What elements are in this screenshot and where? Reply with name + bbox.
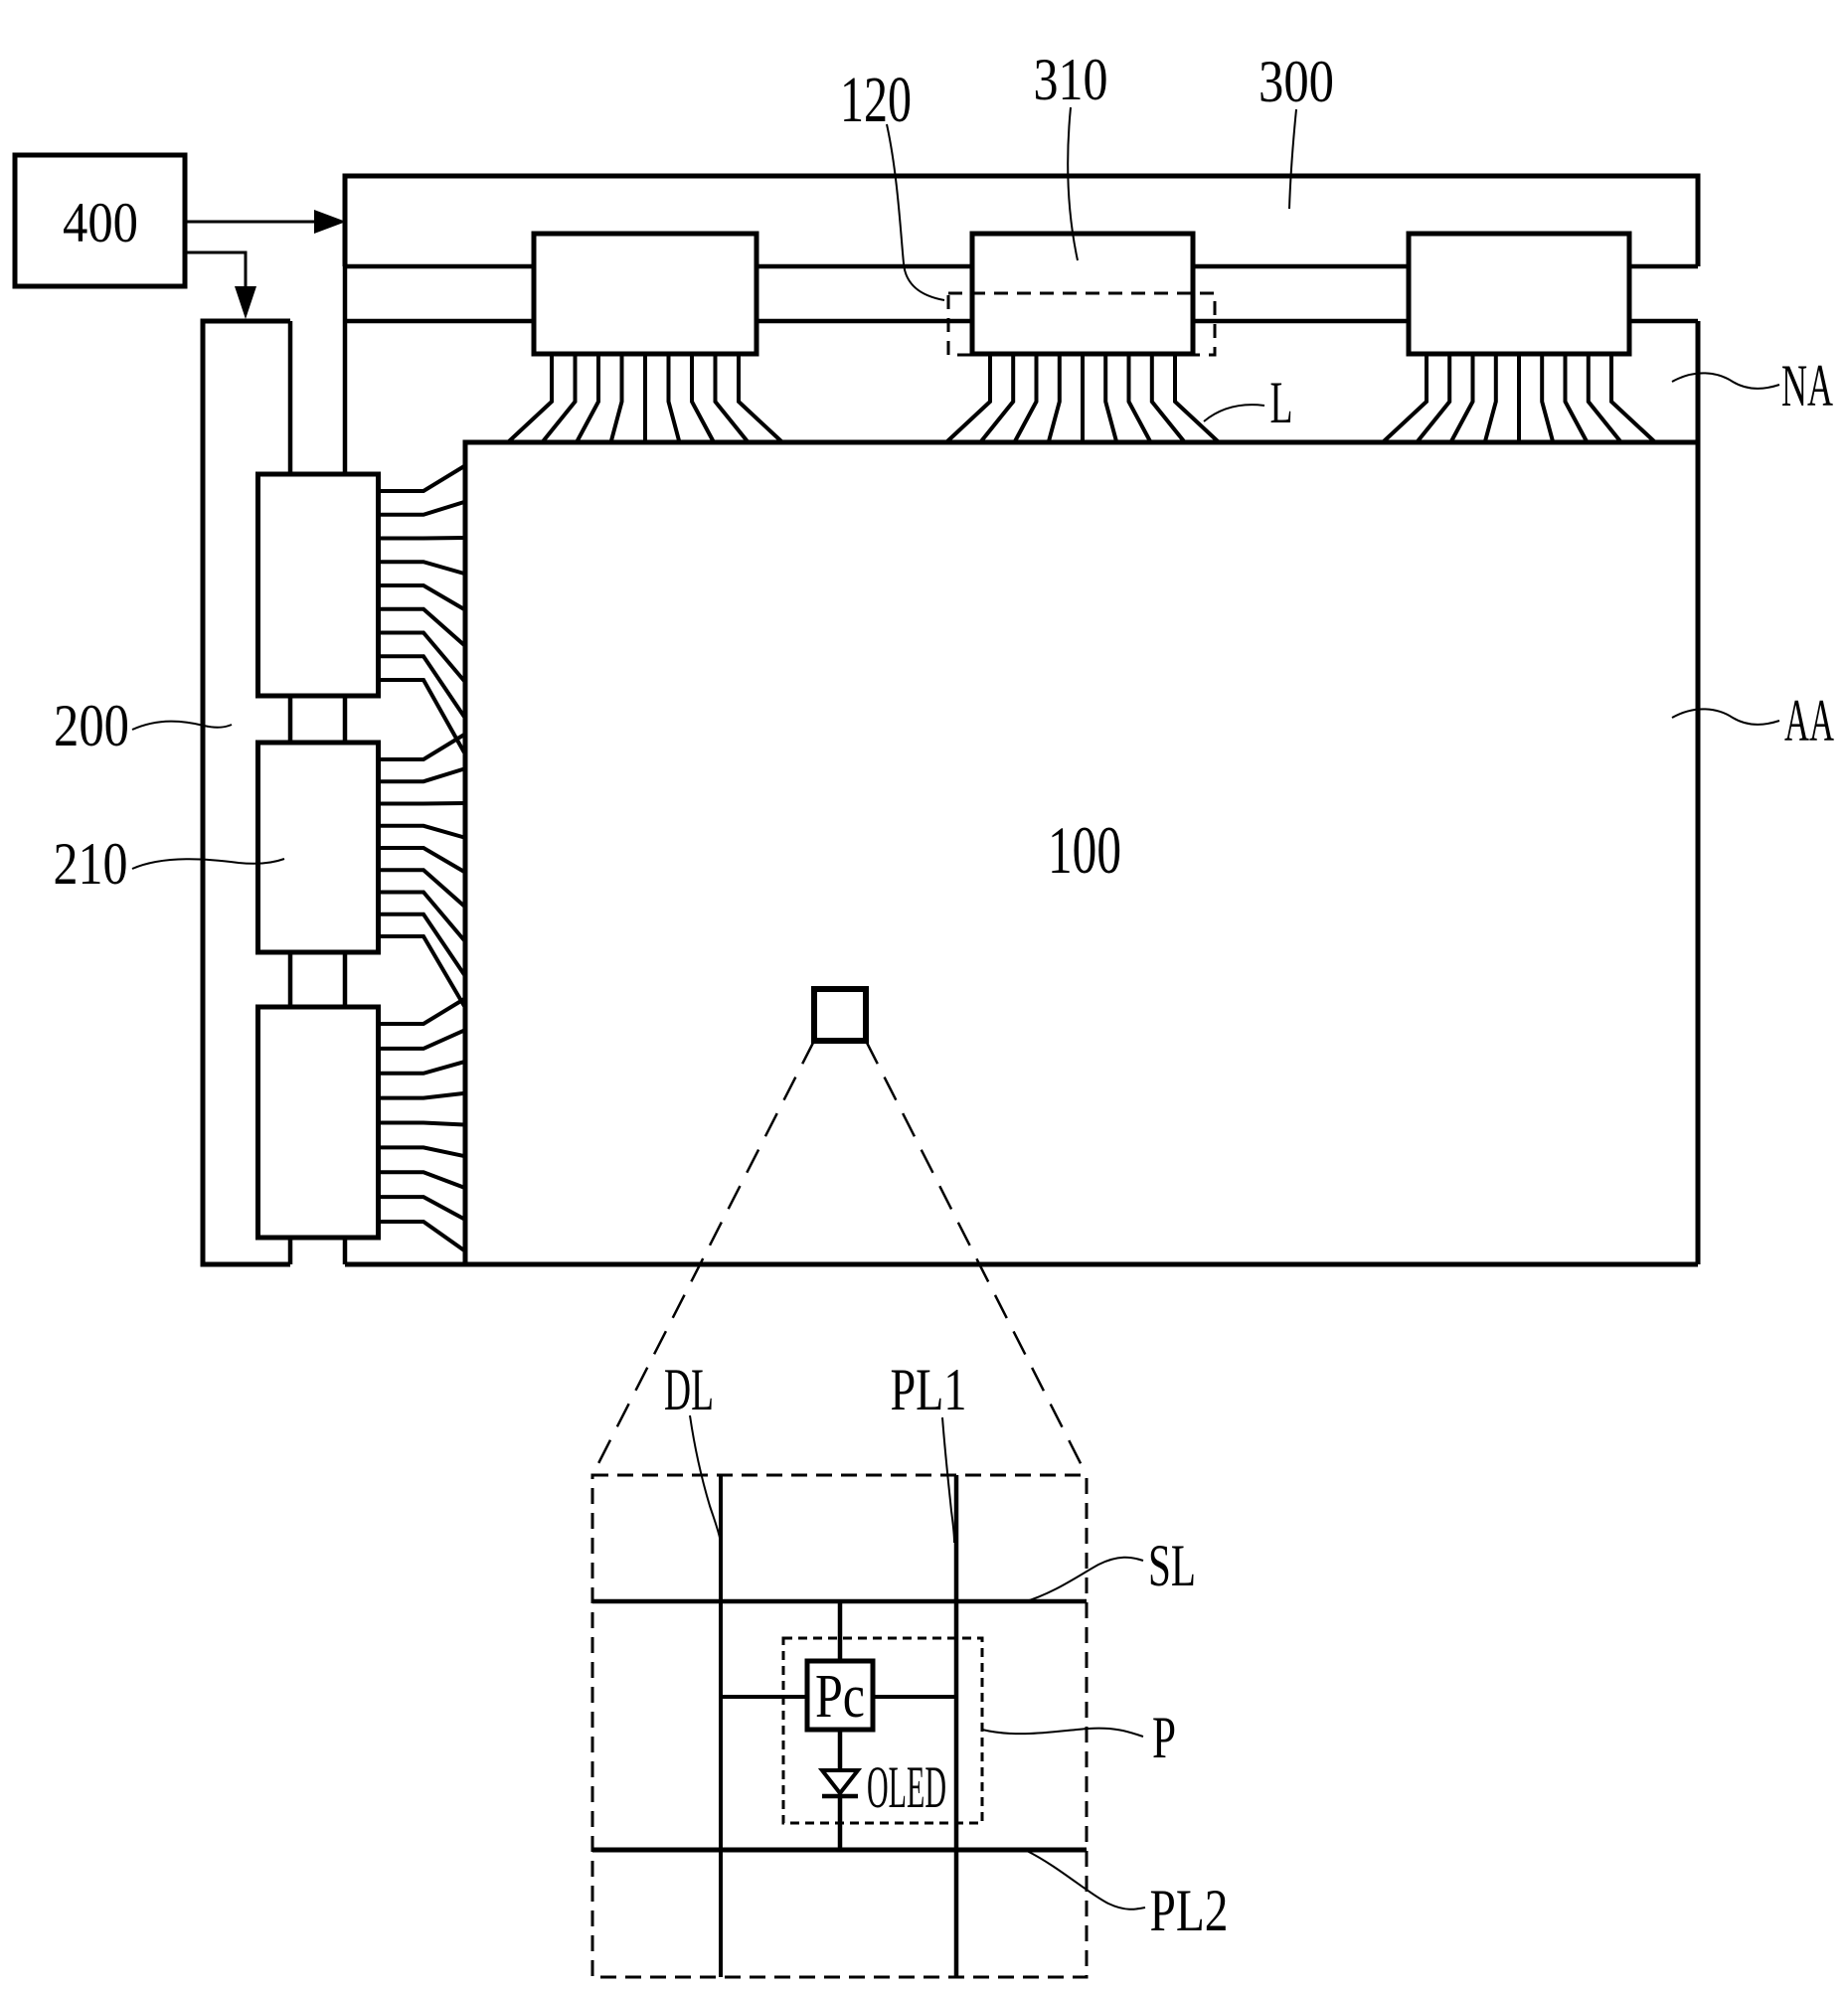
source IC 310 b <box>972 234 1193 354</box>
arrow wire 400 to 300 <box>185 221 316 224</box>
power line PL1 <box>954 1475 959 1977</box>
svg-text:NA: NA <box>1781 353 1833 418</box>
data line DL <box>719 1475 723 1977</box>
svg-text:OLED: OLED <box>867 1754 946 1820</box>
leader 300 <box>1289 109 1296 209</box>
svg-text:PL2: PL2 <box>1150 1878 1229 1943</box>
source IC 310 c <box>1409 234 1629 354</box>
source IC 310 a <box>534 234 756 354</box>
gate fan-out wires block c <box>379 999 464 1250</box>
leader SL <box>1023 1558 1143 1602</box>
pixel dashed box P <box>783 1638 982 1823</box>
svg-text:310: 310 <box>1034 47 1108 112</box>
svg-text:SL: SL <box>1148 1533 1196 1598</box>
leader 120 <box>887 124 944 300</box>
substrate NA bottom edge <box>345 1262 1698 1267</box>
leader AA <box>1672 709 1779 724</box>
arrow wire 400 to 200 <box>185 252 246 288</box>
svg-text:AA: AA <box>1784 688 1834 753</box>
scan line SL <box>592 1599 1087 1604</box>
svg-text:400: 400 <box>63 192 138 254</box>
source fan-out wires ic b <box>947 354 1218 441</box>
arrowhead right <box>314 210 346 234</box>
printed circuit board 300 (top bar) <box>345 176 1698 266</box>
svg-text:P: P <box>1152 1705 1176 1770</box>
controller box 400 <box>15 155 185 286</box>
svg-text:Pc: Pc <box>815 1663 865 1731</box>
pixel circuit branch wires <box>721 1695 956 1699</box>
gate block 210 c <box>258 1007 379 1238</box>
leader 310 <box>1068 107 1078 260</box>
gate driver bar 200 <box>203 321 290 1264</box>
arrowhead down <box>235 286 256 319</box>
svg-text:300: 300 <box>1259 49 1334 114</box>
source fan-out wires ic c <box>1384 354 1654 441</box>
leader PL1 <box>942 1417 954 1543</box>
gate block 210 a <box>258 474 379 696</box>
callout dashed diagonal right <box>866 1041 1087 1475</box>
gate fan-out wires block b <box>379 735 464 1006</box>
OLED cathode bar <box>822 1794 858 1799</box>
leader P <box>982 1729 1143 1737</box>
leader NA <box>1672 373 1779 388</box>
svg-text:PL1: PL1 <box>891 1357 967 1422</box>
svg-text:120: 120 <box>840 64 912 136</box>
bar 300 bottom edge segments <box>345 264 1698 269</box>
power line PL2 <box>592 1848 1087 1853</box>
gate block 210 b <box>258 743 379 952</box>
leader PL2 <box>1027 1851 1145 1909</box>
leader L <box>1204 405 1264 421</box>
callout dashed diagonal left <box>592 1041 814 1475</box>
substrate NA left edge <box>343 176 348 1264</box>
substrate NA right edge <box>1696 321 1701 1264</box>
pixel circuit box Pc <box>807 1661 873 1730</box>
gate fan-out wires block a <box>379 466 464 752</box>
svg-text:L: L <box>1270 370 1293 435</box>
active area AA outline <box>465 442 1698 1264</box>
leader DL <box>690 1415 720 1538</box>
svg-text:200: 200 <box>54 693 129 758</box>
pixel location square <box>814 989 866 1041</box>
OLED diode triangle <box>822 1770 858 1793</box>
leader 210 <box>132 859 284 869</box>
dashed region 120 <box>948 293 1215 355</box>
leader 200 <box>132 722 232 730</box>
svg-text:100: 100 <box>1048 812 1121 888</box>
detail dashed box <box>592 1475 1087 1977</box>
substrate NA top edge <box>345 319 1698 324</box>
svg-text:DL: DL <box>664 1357 714 1422</box>
bar 200 right edge segments <box>288 321 293 1264</box>
source fan-out wires L ic a <box>509 354 781 441</box>
svg-text:210: 210 <box>54 831 128 897</box>
pixel circuit vertical wire <box>838 1601 843 1850</box>
